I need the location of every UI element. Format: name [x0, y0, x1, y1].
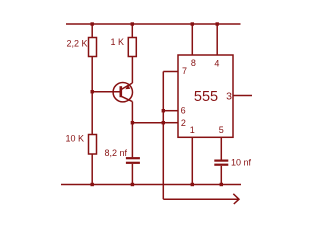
wire pin6 horizontal — [163, 110, 178, 112]
node junction top rail at pin 8 — [191, 22, 194, 25]
svg-text:5: 5 — [219, 125, 224, 135]
svg-text:6: 6 — [181, 106, 186, 116]
resistor 10K body — [89, 135, 97, 155]
svg-text:8: 8 — [191, 58, 196, 68]
wire 10K bottom lead — [91, 154, 93, 185]
wire pin7 horizontal — [163, 71, 178, 73]
svg-text:8,2 nf: 8,2 nf — [104, 148, 127, 158]
wire output arrow horizontal — [163, 198, 239, 200]
node junction ground at 8.2nf — [131, 183, 134, 186]
wire collector to trigger bus — [132, 122, 163, 124]
resistor 2.2K body — [89, 38, 97, 57]
wire 10nf bottom lead — [220, 166, 222, 185]
wire pin1 vertical — [191, 137, 193, 184]
node junction top rail at 1K — [131, 22, 134, 25]
wire pin3 output stub — [233, 95, 252, 97]
svg-text:3: 3 — [226, 90, 232, 102]
wire 8.2nf bottom lead — [131, 164, 133, 185]
capacitor 10nf top plate — [214, 160, 228, 162]
wire pin5 top lead — [220, 137, 222, 159]
node junction collector / cap 8.2nf — [131, 121, 134, 124]
transistor Q1 collector diagonal — [121, 96, 132, 101]
wire 2.2K top lead — [91, 24, 93, 38]
wire 2.2K bottom lead down to 10K — [91, 57, 93, 135]
wire 8.2nf top lead — [131, 123, 133, 158]
svg-text:4: 4 — [214, 59, 219, 69]
capacitor 8.2nf top plate — [126, 157, 140, 159]
svg-text:1 K: 1 K — [110, 37, 124, 47]
node junction ground at 10nf — [220, 183, 223, 186]
svg-text:7: 7 — [182, 66, 187, 76]
node junction top rail at pin 4 — [216, 22, 219, 25]
svg-text:555: 555 — [194, 89, 218, 105]
capacitor 8.2nf bottom plate — [126, 162, 140, 164]
node junction bus at pin 6 — [162, 109, 165, 112]
node junction ground at 10K — [91, 183, 94, 186]
wire output arrowhead — [233, 194, 239, 204]
transistor Q1 base bar — [120, 86, 123, 97]
wire top supply rail — [66, 23, 241, 25]
wire transistor base — [92, 91, 121, 93]
wire transistor collector lead down — [131, 102, 133, 123]
svg-text:10 nf: 10 nf — [231, 158, 252, 168]
node junction bus at pin 2 — [162, 121, 165, 124]
wire pin8 vertical — [191, 24, 193, 55]
wire bottom ground rail — [61, 184, 241, 186]
svg-text:10 K: 10 K — [65, 134, 84, 144]
wire pin4 vertical — [216, 24, 218, 55]
transistor Q1 emitter diagonal with arrow to base — [121, 83, 132, 90]
wire pin2 horizontal — [163, 122, 178, 124]
svg-text:2: 2 — [181, 118, 186, 128]
wire 1K bottom lead to transistor — [131, 57, 133, 84]
capacitor 10nf bottom plate — [214, 164, 228, 166]
resistor 1K body — [128, 38, 136, 57]
transistor Q1 circle — [113, 83, 132, 102]
wire vertical bus pin7 to output arrow — [162, 72, 164, 200]
svg-text:2,2 K: 2,2 K — [66, 39, 87, 49]
op-amp U1 555 IC box — [178, 55, 233, 137]
node junction top rail at 2.2K — [91, 22, 94, 25]
node junction base tee — [91, 90, 94, 93]
svg-text:1: 1 — [190, 125, 195, 135]
node junction ground at pin1 — [191, 183, 194, 186]
transistor Q1 emitter arrowhead — [125, 85, 130, 89]
wire 1K top lead — [131, 24, 133, 38]
